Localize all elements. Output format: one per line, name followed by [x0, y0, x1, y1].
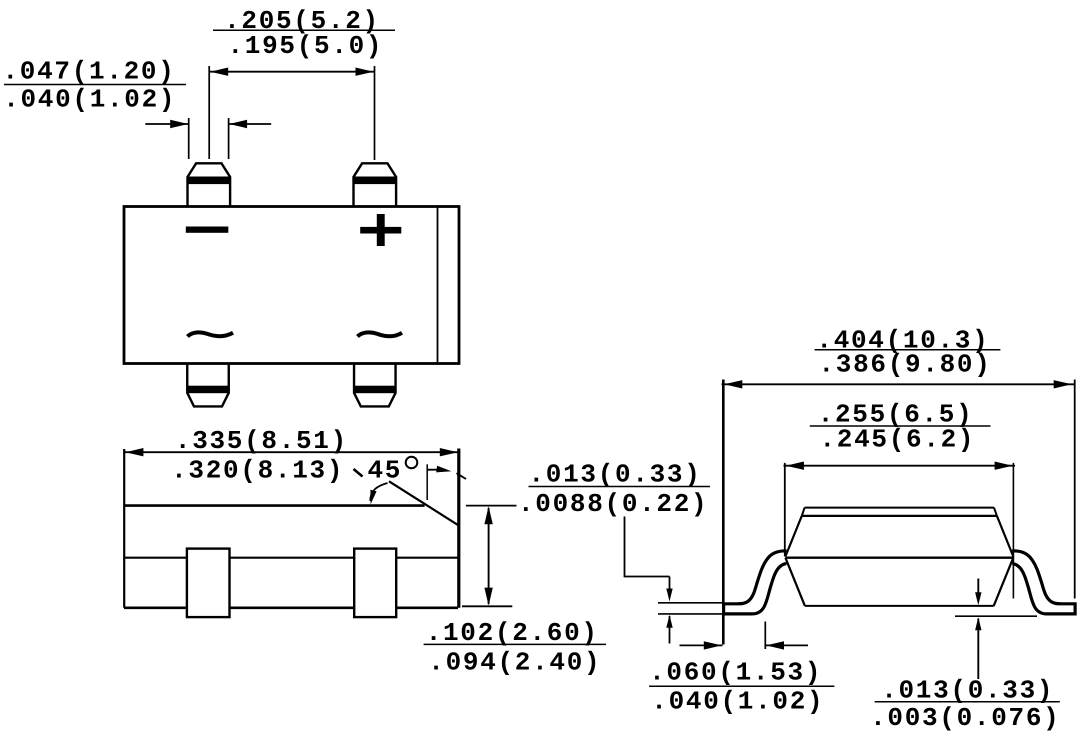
svg-text:.102(2.60): .102(2.60): [426, 618, 599, 648]
svg-text:.040(1.02): .040(1.02): [651, 687, 824, 717]
svg-text:.013(0.33): .013(0.33): [529, 460, 702, 490]
svg-text:45: 45: [368, 456, 403, 486]
svg-text:.195(5.0): .195(5.0): [228, 31, 384, 61]
svg-text:.320(8.13): .320(8.13): [171, 456, 344, 486]
svg-text:.0088(0.22): .0088(0.22): [518, 489, 708, 519]
svg-text:.013(0.33): .013(0.33): [881, 676, 1054, 706]
svg-text:.386(9.80): .386(9.80): [819, 350, 992, 380]
svg-text:.245(6.2): .245(6.2): [820, 425, 976, 455]
svg-text:.040(1.02): .040(1.02): [3, 85, 176, 115]
svg-text:.060(1.53): .060(1.53): [649, 658, 822, 688]
svg-text:.047(1.20): .047(1.20): [3, 57, 176, 87]
svg-text:.003(0.076): .003(0.076): [870, 703, 1060, 733]
svg-text:.335(8.51): .335(8.51): [175, 426, 348, 456]
svg-text:.094(2.40): .094(2.40): [428, 648, 601, 678]
